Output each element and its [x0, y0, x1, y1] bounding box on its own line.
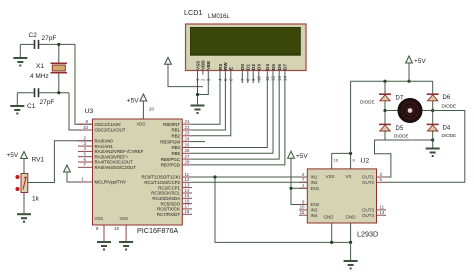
ground for C2	[13, 44, 27, 65]
pin 7 RA5 stub	[78, 162, 93, 167]
svg-text:VSS: VSS	[120, 216, 129, 221]
svg-text:L293D: L293D	[357, 230, 378, 239]
pin 26 stub	[182, 148, 192, 153]
svg-text:D4: D4	[443, 126, 451, 132]
svg-text:VEE: VEE	[206, 61, 211, 70]
svg-text:DIODE: DIODE	[394, 134, 409, 139]
crystal X1 4MHz	[30, 44, 67, 92]
svg-text:X1: X1	[36, 63, 44, 70]
svg-text:RS: RS	[218, 64, 223, 70]
svg-text:OSC2/CLKOUT: OSC2/CLKOUT	[95, 128, 126, 133]
svg-text:+5V: +5V	[7, 152, 19, 159]
svg-text:RA4/T0CKI/C1OUT: RA4/T0CKI/C1OUT	[95, 160, 134, 165]
pin 16 stub	[182, 198, 192, 203]
svg-text:U2: U2	[361, 158, 370, 165]
power +5V for RV1	[7, 152, 28, 160]
wire +5V to EN1 and EN2	[291, 158, 307, 204]
pin 1 stub U2 left	[299, 183, 307, 188]
svg-text:27pF: 27pF	[42, 35, 57, 42]
wire LCD RW to RB1	[192, 75, 225, 131]
LCD pin 11 D4 stub	[265, 71, 270, 82]
svg-text:RC6/TX/CK: RC6/TX/CK	[157, 207, 180, 212]
LCD pin 14 D7 stub	[283, 71, 288, 82]
pin 24 stub	[182, 136, 192, 141]
svg-text:OUT3: OUT3	[362, 208, 374, 213]
svg-text:11: 11	[185, 172, 190, 177]
pin 8 VS stub U2 top	[351, 153, 356, 169]
LCD pin 5 RW stub	[223, 71, 228, 82]
svg-text:RB5: RB5	[171, 151, 180, 156]
wire RB3 stub	[192, 141, 205, 143]
svg-text:IN4: IN4	[311, 213, 319, 218]
wire LCD D1 stub	[247, 75, 249, 84]
wire OUT1 to motor left	[375, 140, 391, 177]
svg-text:+5V: +5V	[127, 98, 139, 105]
svg-text:27pF: 27pF	[40, 99, 55, 106]
pin 3 stub U2 right	[377, 172, 387, 177]
svg-text:RA1/AN1: RA1/AN1	[95, 144, 114, 149]
svg-text:15: 15	[185, 193, 190, 198]
diode D5	[379, 124, 409, 138]
node motor right	[431, 109, 434, 112]
ground for C1	[10, 93, 24, 114]
svg-text:17: 17	[185, 204, 190, 209]
svg-text:RB6/PGC: RB6/PGC	[161, 157, 180, 162]
svg-text:+5V: +5V	[296, 153, 308, 160]
wire RV1 bottom to ground	[23, 193, 25, 215]
svg-text:D1: D1	[246, 64, 251, 70]
svg-text:27: 27	[185, 154, 190, 159]
ground for U2	[344, 261, 358, 269]
svg-text:15: 15	[300, 210, 305, 215]
wire LCD D0 stub	[241, 75, 243, 84]
svg-text:RB1: RB1	[171, 128, 180, 133]
node bridge rail left	[383, 80, 386, 83]
svg-text:26: 26	[185, 148, 190, 153]
wire OUT2 to motor right	[386, 111, 465, 183]
svg-text:D7: D7	[283, 64, 288, 70]
wire LCD RS to RB0	[192, 75, 220, 125]
wire rail to U2 supply	[350, 81, 352, 153]
ground for bridge	[426, 149, 440, 157]
svg-text:LM016L: LM016L	[208, 14, 230, 20]
wire +5V riser	[408, 63, 410, 81]
svg-text:MCLR/Vpp/THV: MCLR/Vpp/THV	[95, 180, 127, 185]
svg-text:16: 16	[185, 198, 190, 203]
pin 17 stub	[182, 204, 192, 209]
wire RC1 to IN2	[192, 181, 307, 183]
svg-text:RC7/RX/DT: RC7/RX/DT	[157, 212, 180, 217]
svg-text:IN1: IN1	[311, 175, 319, 180]
svg-text:C2: C2	[29, 32, 38, 39]
ground for LCD	[191, 106, 205, 114]
wire bottom rail to ground	[432, 140, 434, 148]
pin 11 stub U2 right	[377, 205, 387, 210]
LCD pin 8 D1 stub	[246, 71, 251, 82]
svg-text:RC4/SDI/SDA: RC4/SDI/SDA	[152, 196, 180, 201]
svg-text:IN3: IN3	[311, 208, 319, 213]
svg-text:RB3/PGM: RB3/PGM	[160, 139, 180, 144]
svg-text:+5V: +5V	[414, 58, 426, 65]
pin 27 stub	[182, 154, 192, 159]
svg-text:RB4: RB4	[171, 145, 180, 150]
wire LCD D3 stub	[258, 75, 260, 84]
svg-text:10: 10	[83, 125, 88, 130]
pin 21 stub	[182, 119, 192, 124]
svg-text:OSC1/CLKIN: OSC1/CLKIN	[95, 122, 121, 127]
svg-text:RB7/PGD: RB7/PGD	[161, 163, 180, 168]
pin 13 stub	[182, 182, 192, 187]
pin 22 stub	[182, 125, 192, 130]
wire RC0 to IN1	[192, 176, 307, 178]
svg-text:U3: U3	[85, 108, 94, 115]
wire IN1 node to ground rail	[215, 177, 351, 242]
svg-text:RV1: RV1	[32, 157, 45, 164]
node EN1 junction	[289, 187, 292, 190]
IC U3 PIC16F876A body	[85, 108, 183, 235]
pin 7 stub U2 left	[299, 177, 307, 182]
wire U2 ground stem	[350, 242, 352, 260]
svg-text:14: 14	[185, 188, 190, 193]
svg-text:VSS: VSS	[95, 216, 104, 221]
node motor left	[383, 109, 386, 112]
svg-text:12: 12	[185, 177, 190, 182]
wire bridge bottom rail	[375, 139, 433, 141]
LCD pin 7 D0 stub	[240, 71, 245, 82]
wire bridge top rail	[351, 80, 433, 82]
node: C2/X1/OSC1 junction	[57, 43, 60, 46]
svg-text:D6: D6	[277, 64, 282, 70]
wire +5V to VDD pin 20	[142, 101, 144, 119]
capacitor C2	[20, 32, 75, 49]
svg-text:4 MHz: 4 MHz	[30, 73, 49, 80]
svg-text:RC1/T1OSI/CCP2: RC1/T1OSI/CCP2	[144, 180, 180, 185]
wire motor right lead	[421, 110, 433, 112]
potentiometer RV1 1k	[15, 157, 44, 203]
wire motor left lead	[385, 110, 399, 112]
power +5V for U3 VDD	[127, 94, 147, 105]
pin 18 stub	[182, 209, 192, 214]
wire LCD D6 to RB6	[192, 75, 279, 160]
diode D6	[427, 94, 456, 108]
svg-text:DIODE: DIODE	[360, 100, 375, 105]
svg-text:RC2/CCP1: RC2/CCP1	[158, 185, 180, 190]
wire X1 bottom to OSC2	[69, 93, 93, 130]
pin 19 VSS ground	[114, 225, 133, 250]
svg-text:RA2/AN2/VREF-/CVREF: RA2/AN2/VREF-/CVREF	[95, 149, 144, 154]
svg-text:RA3/AN3/VREF+: RA3/AN3/VREF+	[95, 154, 129, 159]
svg-text:1k: 1k	[32, 196, 40, 203]
svg-text:RW: RW	[223, 62, 228, 70]
node VS supply junction	[349, 152, 352, 155]
power +5V for EN1/EN2	[288, 151, 309, 160]
svg-text:19: 19	[114, 226, 119, 231]
pin 2 RA0 stub	[78, 136, 93, 141]
svg-text:VDD: VDD	[137, 122, 146, 127]
svg-text:RB0/INT: RB0/INT	[163, 122, 180, 127]
svg-text:D5: D5	[396, 126, 404, 132]
wire RV1 wiper to RA0	[28, 141, 93, 183]
svg-text:E: E	[229, 67, 234, 70]
svg-text:11: 11	[380, 205, 385, 210]
svg-text:23: 23	[185, 131, 190, 136]
svg-text:RA5/AN4/SS/C2OUT: RA5/AN4/SS/C2OUT	[95, 165, 137, 170]
svg-text:OUT2: OUT2	[362, 180, 374, 185]
pin 25 stub	[182, 142, 192, 147]
pin 16 VSS stub U2 top	[332, 153, 339, 169]
LCD pin 6 E stub	[229, 71, 234, 82]
wire U2 GND pins to ground rail	[332, 223, 351, 242]
ground for RV1	[17, 214, 31, 222]
LCD pin 2 VDD stub	[201, 71, 206, 82]
pin 10 OSC2 stub	[78, 125, 93, 130]
wire bridge left vertical	[384, 81, 386, 140]
pin 14 stub	[182, 188, 192, 193]
svg-text:VSS: VSS	[195, 61, 200, 70]
pin 6 RA4 stub	[78, 157, 93, 162]
svg-text:RC5/SDO: RC5/SDO	[160, 201, 180, 206]
LCD pin 4 RS stub	[218, 71, 223, 82]
svg-text:D3: D3	[257, 64, 262, 70]
pin 12 stub	[182, 177, 192, 182]
capacitor C1	[17, 88, 69, 110]
svg-text:D2: D2	[251, 64, 256, 70]
wire +5V to MCLR pin 1	[67, 172, 93, 182]
node GND rail left	[330, 241, 333, 244]
pin 2 stub U2 left	[299, 172, 307, 177]
node GND rail right	[349, 241, 352, 244]
svg-text:IN2: IN2	[311, 180, 319, 185]
svg-text:18: 18	[185, 209, 190, 214]
IC U2 L293D body	[307, 158, 378, 239]
wire LCD E to RB2	[192, 75, 231, 136]
svg-text:DIODE: DIODE	[442, 104, 457, 109]
wire bridge right vertical	[432, 81, 434, 140]
diode D7	[360, 94, 404, 104]
wire LCD D4 to RB4	[192, 75, 267, 148]
node: C1/X1/OSC2 junction	[57, 91, 60, 94]
pin 15 stub	[182, 193, 192, 198]
svg-text:EN1: EN1	[311, 186, 320, 191]
node bottom rail right	[431, 138, 434, 141]
wire LCD D5 to RB5	[192, 75, 273, 154]
LCD pin 10 D3 stub	[257, 71, 262, 82]
pin 15 stub U2 left	[299, 210, 307, 215]
svg-text:VDD: VDD	[201, 60, 206, 70]
svg-text:GND: GND	[346, 215, 357, 220]
pin 5 RA3 stub	[78, 152, 93, 157]
diode D4	[427, 124, 456, 138]
node LCD VSS/VEE junction	[196, 93, 199, 96]
pin 1 MCLR stub	[78, 177, 93, 183]
node IN1/ground-rail junction	[213, 175, 216, 178]
pin 11 stub	[182, 172, 192, 177]
wire +5V to RV1 top	[23, 159, 25, 174]
LCD pin 1 VSS stub	[195, 71, 200, 82]
svg-text:RB2: RB2	[171, 134, 180, 139]
power +5V for motor bridge	[406, 56, 427, 65]
svg-text:RC0/T1OSO/T1CKI: RC0/T1OSO/T1CKI	[141, 175, 180, 180]
svg-text:D5: D5	[271, 64, 276, 70]
svg-text:RC3/SCK/SCL: RC3/SCK/SCL	[151, 191, 180, 196]
svg-text:VSS: VSS	[326, 174, 335, 179]
pin 14 stub U2 right	[377, 210, 387, 215]
svg-text:LCD1: LCD1	[184, 8, 202, 17]
svg-text:D4: D4	[265, 64, 270, 70]
power arrow for LCD VDD	[165, 57, 172, 64]
wire LCD VEE to VSS node	[198, 75, 209, 95]
svg-text:GND: GND	[324, 215, 335, 220]
svg-text:OUT1: OUT1	[362, 175, 374, 180]
wire LCD D2 stub	[252, 75, 254, 84]
pin 6 stub U2 right	[377, 177, 387, 182]
wire +5V to LCD VDD	[168, 64, 203, 86]
svg-text:EN2: EN2	[311, 202, 320, 207]
LCD pin 3 VEE stub	[206, 71, 211, 82]
svg-text:20: 20	[149, 107, 154, 112]
pin 9 stub U2 left	[299, 199, 307, 204]
power +5V for MCLR	[64, 165, 71, 172]
pin 9 OSC1 stub	[78, 119, 93, 124]
pin 23 stub	[182, 131, 192, 136]
wire LCD VSS to ground	[197, 75, 199, 106]
motor	[398, 99, 422, 123]
svg-text:25: 25	[185, 142, 190, 147]
pin 10 stub U2 left	[299, 205, 307, 210]
wire LCD D7 to RB7	[192, 75, 285, 165]
LCD pin 13 D6 stub	[277, 71, 282, 82]
svg-text:DIODE: DIODE	[442, 133, 457, 138]
svg-text:C1: C1	[27, 103, 36, 110]
svg-text:21: 21	[185, 119, 190, 124]
svg-text:D0: D0	[240, 64, 245, 70]
pin 28 stub	[182, 160, 192, 165]
pin 4 RA2 stub	[78, 146, 93, 151]
node +5V rail junction	[407, 80, 410, 83]
LCD pin 12 D5 stub	[271, 71, 276, 82]
svg-text:14: 14	[380, 210, 385, 215]
wire X1 top to OSC1	[75, 44, 93, 124]
svg-text:24: 24	[185, 136, 190, 141]
svg-text:16: 16	[334, 158, 339, 163]
svg-text:28: 28	[185, 160, 190, 165]
svg-text:10: 10	[300, 205, 305, 210]
LCD1 LM016L display	[184, 8, 306, 71]
LCD pin 9 D2 stub	[251, 71, 256, 82]
pin 3 RA1 stub	[78, 141, 93, 146]
pin 8 VSS ground	[96, 225, 111, 250]
svg-text:RA0/AN0: RA0/AN0	[95, 139, 114, 144]
svg-text:OUT4: OUT4	[362, 213, 374, 218]
svg-text:22: 22	[185, 125, 190, 130]
wire VSS16 to VS8	[332, 152, 351, 154]
svg-text:D6: D6	[443, 95, 451, 101]
svg-text:13: 13	[185, 182, 190, 187]
svg-text:PIC16F876A: PIC16F876A	[137, 226, 178, 235]
svg-text:VS: VS	[346, 174, 352, 179]
